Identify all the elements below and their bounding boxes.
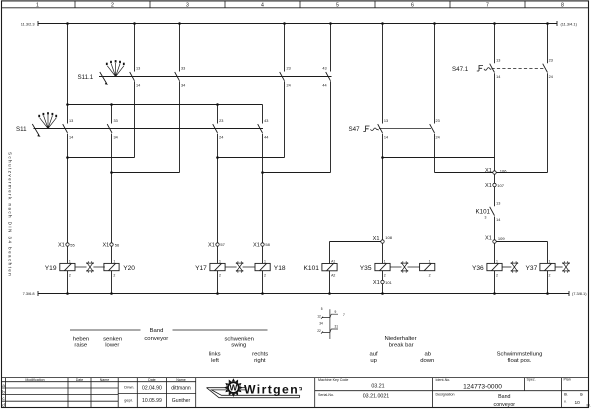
switch S47.1 mechanical link (dashed) <box>492 68 545 70</box>
logo gear emblem with W <box>224 378 243 397</box>
svg-text:23: 23 <box>219 119 223 123</box>
junction top rail x=330 <box>329 22 332 25</box>
junction S11 branch x=112 <box>110 103 113 106</box>
svg-text:1: 1 <box>113 260 115 264</box>
svg-text:Y36: Y36 <box>472 265 484 272</box>
svg-text:23: 23 <box>287 67 291 71</box>
svg-text:X1: X1 <box>373 280 380 286</box>
svg-text:Bl.: Bl. <box>587 403 591 407</box>
svg-text:4: 4 <box>261 2 264 8</box>
svg-text:2: 2 <box>429 273 431 277</box>
interlock Y19/Y20 <box>86 261 94 272</box>
switch S11 lever <box>32 124 39 136</box>
contact K101 13/14 <box>490 207 495 216</box>
junction y173 x=262.6 <box>261 171 264 174</box>
svg-text:23: 23 <box>549 59 553 63</box>
svg-text:gepr.: gepr. <box>124 398 133 403</box>
svg-text:Y19: Y19 <box>45 265 57 272</box>
valve interlock symbols <box>86 261 570 272</box>
svg-text:1: 1 <box>69 260 71 264</box>
svg-text:(7.3/8.1): (7.3/8.1) <box>572 291 587 296</box>
junction S11 branch x=67.5 <box>66 103 69 106</box>
wire Y37 bottom to rail <box>547 271 549 294</box>
switch name labels <box>16 66 491 220</box>
junction y158 x=382.4 <box>381 156 384 159</box>
svg-text:conveyor: conveyor <box>494 402 516 408</box>
svg-text:14: 14 <box>136 84 140 88</box>
junction top rail x=67.5 <box>66 22 69 25</box>
coil Y20 <box>104 263 119 270</box>
coil Y35 <box>375 263 390 270</box>
svg-text:dittmann: dittmann <box>171 385 191 391</box>
svg-text:43: 43 <box>322 67 326 71</box>
svg-text:X1: X1 <box>208 242 215 248</box>
wire coil link Y19 to Y20 through interlock <box>75 266 105 268</box>
SOLENOID COILS <box>60 263 555 270</box>
connector X1:107 <box>493 183 496 186</box>
svg-text:24: 24 <box>219 136 223 140</box>
contact S47.1 13/14 <box>490 64 495 73</box>
svg-text:Serial-No.: Serial-No. <box>318 393 334 397</box>
svg-text:14: 14 <box>384 136 388 140</box>
junction top rail x=494.6 <box>493 22 496 25</box>
svg-text:lower: lower <box>105 343 119 349</box>
svg-text:13: 13 <box>136 67 140 71</box>
svg-text:a: a <box>2 383 5 388</box>
svg-text:24: 24 <box>287 84 291 88</box>
connector X1:106 <box>493 171 496 174</box>
coil K101 <box>322 264 337 271</box>
svg-text:13: 13 <box>496 201 500 205</box>
svg-text:3: 3 <box>485 216 487 220</box>
svg-text:2: 2 <box>111 2 114 8</box>
Wirtgen logo <box>207 378 302 397</box>
rail reference labels <box>21 21 587 296</box>
junction top rail x=434 <box>433 22 436 25</box>
wire S11 top branch (y=104.5) feeding contacts 33,23,43 <box>68 104 263 106</box>
contact pin numbers <box>69 59 553 223</box>
svg-text:break bar: break bar <box>389 342 414 348</box>
svg-text:23: 23 <box>436 119 440 123</box>
junction bottom rail x=547.1 <box>546 292 549 295</box>
svg-text:Plan: Plan <box>564 377 571 381</box>
connector X1:108 <box>381 240 384 243</box>
wire branch X1:109 to Y37 <box>495 242 548 264</box>
svg-text:conveyor: conveyor <box>144 336 168 342</box>
MAIN WIRES <box>38 21 569 296</box>
svg-text:Y17: Y17 <box>195 265 207 272</box>
wire rail drop to S11.1 contact 23 <box>284 24 286 158</box>
svg-text:10.05.99: 10.05.99 <box>142 398 162 404</box>
svg-text:Bl.: Bl. <box>564 393 568 397</box>
svg-text:X1: X1 <box>485 168 492 174</box>
svg-text:124773-0000: 124773-0000 <box>463 383 502 390</box>
wire coil link Y37 to interlock <box>555 266 563 268</box>
svg-text:58: 58 <box>265 242 270 247</box>
junction bottom rail x=217.6 <box>216 292 219 295</box>
X1 CONNECTOR PINS <box>66 171 496 284</box>
wire rail drop to S11.1 contact 13 <box>134 24 136 158</box>
wire coil link Y36 to interlock <box>502 266 512 268</box>
svg-text:swing: swing <box>231 343 246 349</box>
contact S11 43/44 <box>258 124 263 133</box>
coil Y37 <box>540 263 555 270</box>
svg-text:5: 5 <box>336 2 339 8</box>
switch S11 selector fan <box>37 112 57 137</box>
svg-text:1: 1 <box>219 260 221 264</box>
svg-text:34: 34 <box>181 84 185 88</box>
switch S11 mechanical line <box>34 128 264 130</box>
wire K101 coil bottom to rail <box>329 271 331 294</box>
switch S47 mechanical link <box>379 128 431 130</box>
svg-text:7.3/6.8: 7.3/6.8 <box>23 291 35 296</box>
wire S47-13 bottom branch to S47.1-14 (y=158) <box>383 157 495 159</box>
wire column Y18 net: S11 contact 43 bottom through X1:58 and coil Y18 to bottom rail <box>262 134 264 294</box>
svg-text:c: c <box>2 396 5 401</box>
svg-text:13: 13 <box>496 59 500 63</box>
svg-text:2: 2 <box>219 273 221 277</box>
svg-text:S11: S11 <box>16 126 27 133</box>
svg-text:8: 8 <box>561 2 564 8</box>
svg-text:X1: X1 <box>253 242 260 248</box>
svg-text:(11.3/4.1): (11.3/4.1) <box>561 21 578 26</box>
wire S47-23 bottom to X1:106 line (y=173) over to S47.1-24 drop <box>435 172 548 174</box>
junction top rail x=179.5 <box>178 22 181 25</box>
connector X1:55 <box>66 243 69 246</box>
svg-text:107: 107 <box>497 183 504 188</box>
contact S47 13/14 <box>378 124 383 133</box>
SWITCHES <box>32 60 547 216</box>
svg-text:44: 44 <box>322 84 326 88</box>
wire coil link Y17 to Y18 through interlock <box>226 266 255 268</box>
contact S11.1 43/44 <box>326 72 331 81</box>
wire link S11.1-33 bottom to Y20 net (y=173) <box>112 172 180 174</box>
svg-text:Name: Name <box>100 378 110 382</box>
svg-text:Modification: Modification <box>25 378 44 382</box>
group line Band conveyor <box>70 329 268 331</box>
svg-text:108: 108 <box>385 235 392 240</box>
svg-text:Y18: Y18 <box>274 265 286 272</box>
wire link S11.1-43 bottom to Y18 net (y=173) <box>263 172 331 174</box>
svg-text:2: 2 <box>549 273 551 277</box>
svg-text:v.: v. <box>564 400 567 404</box>
interlock Y35/partner <box>401 261 409 272</box>
switch S47 actuator symbol <box>363 126 369 132</box>
connector X1:109 <box>493 240 496 243</box>
svg-text:senken: senken <box>103 336 122 342</box>
svg-text:right: right <box>254 358 266 364</box>
wire rail drop to S11.1 contact 43 <box>330 24 332 173</box>
coil Y18 <box>255 263 270 270</box>
junction bottom rail x=329.7 <box>328 292 331 295</box>
interlock Y17/Y18 <box>236 261 244 272</box>
svg-text:1: 1 <box>264 260 266 264</box>
wire column Y20 net: S11 contact 33 bottom through X1:56 and coil Y20 to bottom rail <box>111 134 113 294</box>
contact S11.1 33/34 <box>175 72 180 81</box>
svg-text:6: 6 <box>411 2 414 8</box>
svg-text:K101: K101 <box>304 265 320 272</box>
logo machine silhouette <box>207 388 302 398</box>
svg-text:31: 31 <box>335 325 339 329</box>
svg-text:up: up <box>370 358 377 364</box>
junction bottom rail x=262.6 <box>261 292 264 295</box>
svg-text:02.04.90: 02.04.90 <box>142 385 162 391</box>
svg-text:auf: auf <box>369 352 378 358</box>
svg-text:Y35: Y35 <box>360 265 372 272</box>
svg-text:24: 24 <box>436 136 440 140</box>
svg-text:X1: X1 <box>373 236 380 242</box>
coil Y36 <box>487 263 502 270</box>
svg-text:13: 13 <box>69 119 73 123</box>
svg-text:Date: Date <box>76 378 84 382</box>
svg-text:2: 2 <box>264 273 266 277</box>
contact S47.1 23/24 <box>543 64 548 73</box>
svg-text:b: b <box>2 390 5 395</box>
wire rail drop to S47.1 contact 23, bottom down to y=173 <box>547 24 549 173</box>
contact S47 23/24 <box>430 124 435 133</box>
svg-text:106: 106 <box>500 169 507 174</box>
svg-text:Y37: Y37 <box>526 265 538 272</box>
contact S11 13/14 <box>63 124 68 133</box>
contact S11 23/24 <box>213 124 218 133</box>
svg-text:Spez.: Spez. <box>527 377 536 381</box>
wire column Y19 net: rail to S11 contact 13, to X1:55, coil Y19, to bottom rail <box>67 24 69 294</box>
junction top rail x=285 <box>283 22 286 25</box>
contact S11.1 23/24 <box>280 72 285 81</box>
svg-text:schwenken: schwenken <box>224 336 253 342</box>
svg-text:rechts: rechts <box>252 352 268 358</box>
svg-text:Gunther: Gunther <box>172 398 191 404</box>
column index strip line <box>2 7 589 9</box>
switch S11.1 mechanical line <box>99 76 332 78</box>
wire rail drop through S47.1 contact 13 down through X1:106, X1:107, K101 contact, X1:109 to coil Y36 <box>494 24 496 294</box>
svg-text:Band: Band <box>150 328 164 334</box>
node M : bottom return rail <box>38 291 569 296</box>
svg-text:Band: Band <box>498 394 510 400</box>
svg-text:34: 34 <box>114 136 118 140</box>
svg-text:left: left <box>211 358 219 364</box>
svg-text:33: 33 <box>181 67 185 71</box>
svg-text:S47.1: S47.1 <box>452 66 469 73</box>
svg-text:A1: A1 <box>331 260 335 264</box>
svg-text:10: 10 <box>575 400 581 406</box>
coil pin numbers <box>69 260 551 278</box>
junction bottom rail x=112 <box>110 292 113 295</box>
svg-text:2: 2 <box>69 273 71 277</box>
svg-text:Drwn.: Drwn. <box>124 385 134 390</box>
junction y173 x=112 <box>110 171 113 174</box>
svg-text:Name: Name <box>176 378 186 382</box>
cam position legend <box>317 307 345 339</box>
interlock Y37 <box>562 261 570 272</box>
svg-text:5: 5 <box>321 307 323 311</box>
svg-text:Niederhalter: Niederhalter <box>384 336 416 342</box>
wire branch X1:108 to K101 coil <box>330 242 383 264</box>
svg-text:down: down <box>420 358 434 364</box>
wire link S11.1-23 bottom to Y17 net (y=158) <box>218 157 285 159</box>
svg-text:24: 24 <box>549 75 553 79</box>
svg-text:Schutzvermerk nach DIN 34 beac: Schutzvermerk nach DIN 34 beachten <box>7 152 12 277</box>
connector X1:101 <box>381 280 384 283</box>
connector X1:57 <box>216 243 219 246</box>
svg-text:Date: Date <box>148 378 156 382</box>
svg-text:2: 2 <box>384 273 386 277</box>
svg-text:Ident-No.: Ident-No. <box>436 378 451 382</box>
svg-text:03.21: 03.21 <box>371 384 384 390</box>
wire stub branch to S11 contact 43 <box>262 105 264 124</box>
svg-text:9: 9 <box>335 310 337 314</box>
coil name labels <box>45 265 538 272</box>
svg-text:14: 14 <box>496 218 500 222</box>
connector X1:58 <box>261 243 264 246</box>
svg-text:ab: ab <box>425 352 432 358</box>
wire coil link Y35 to partner coil through interlock <box>390 266 420 268</box>
wire rail drop through S47 contact 13 down to X1:108 and Y35 <box>382 24 384 294</box>
junction top rail x=382.4 <box>381 22 384 25</box>
svg-text:2: 2 <box>113 273 115 277</box>
wire stub branch to S11 contact 23 <box>217 105 219 124</box>
svg-text:9: 9 <box>580 392 583 398</box>
wire stub branch to S11 contact 33 <box>111 105 113 124</box>
svg-text:7: 7 <box>486 2 489 8</box>
svg-text:34: 34 <box>319 322 323 326</box>
connector X1:56 <box>110 243 113 246</box>
TITLE BLOCK <box>2 378 589 408</box>
wire rail drop to S47 contact 23 <box>434 24 436 173</box>
svg-text:1: 1 <box>36 2 39 8</box>
svg-text:Wirtgen: Wirtgen <box>244 382 299 396</box>
switch S11.1 lever <box>100 72 107 84</box>
svg-text:22: 22 <box>317 329 321 333</box>
svg-text:03.21.0021: 03.21.0021 <box>363 393 390 399</box>
column ticks <box>75 1 525 8</box>
junction y158 x=67.5 <box>66 156 69 159</box>
node L+ : top supply rail <box>38 21 557 26</box>
svg-text:S11.1: S11.1 <box>78 74 94 81</box>
svg-text:56: 56 <box>115 242 120 247</box>
svg-text:K101: K101 <box>476 209 491 216</box>
interlock Y36 <box>511 261 519 272</box>
column numbers 1-8 <box>36 2 564 8</box>
svg-text:1: 1 <box>549 260 551 264</box>
svg-text:Schwimmstellung: Schwimmstellung <box>497 352 543 358</box>
svg-text:heben: heben <box>73 336 89 342</box>
wire link S11.1-13 bottom to Y19 net (y=158) <box>68 157 135 159</box>
svg-text:43: 43 <box>264 119 268 123</box>
svg-text:1: 1 <box>496 260 498 264</box>
svg-text:raise: raise <box>74 343 87 349</box>
junction y158 x=217.6 <box>216 156 219 159</box>
svg-text:Y20: Y20 <box>123 265 135 272</box>
junction S11 branch x=217.6 <box>216 103 219 106</box>
svg-text:W: W <box>230 384 238 393</box>
coil Y19 <box>60 263 75 270</box>
svg-text:d: d <box>2 403 5 408</box>
svg-text:Designation: Designation <box>436 392 455 396</box>
svg-text:7: 7 <box>343 313 345 317</box>
svg-text:X1: X1 <box>102 243 109 249</box>
switch S47.1 actuator symbol <box>477 66 483 72</box>
svg-text:1: 1 <box>384 260 386 264</box>
title block grid lines <box>2 377 589 379</box>
junction bottom rail x=382.4 <box>381 292 384 295</box>
contact S11 33/34 <box>107 124 112 133</box>
FUNCTION LABELS <box>70 328 542 364</box>
svg-text:14: 14 <box>69 136 73 140</box>
svg-text:1: 1 <box>429 260 431 264</box>
svg-text:X1: X1 <box>58 243 65 249</box>
switch S11.1 selector fan <box>105 60 125 85</box>
svg-text:float pos.: float pos. <box>508 358 532 364</box>
svg-text:44: 44 <box>264 136 268 140</box>
junction bottom rail x=67.5 <box>66 292 69 295</box>
coil Y35 partner solenoid <box>420 263 435 270</box>
svg-text:X1: X1 <box>485 236 492 242</box>
svg-text:3: 3 <box>186 2 189 8</box>
wire column Y17 net: S11 contact 23 bottom through X1:57 and coil Y17 to bottom rail <box>217 134 219 294</box>
junction bottom rail x=494.6 <box>493 292 496 295</box>
svg-text:101: 101 <box>385 280 392 285</box>
junction top rail x=547.1 <box>546 22 549 25</box>
junction top rail x=134.5 <box>133 22 136 25</box>
svg-text:links: links <box>209 352 221 358</box>
wire rail drop to S11.1 contact 33 <box>179 24 181 173</box>
svg-text:Machine Key Code: Machine Key Code <box>318 378 348 382</box>
svg-text:2: 2 <box>496 273 498 277</box>
svg-text:X1: X1 <box>485 183 492 189</box>
svg-text:14: 14 <box>496 75 500 79</box>
contact S11.1 13/14 <box>130 72 135 81</box>
svg-text:109: 109 <box>498 236 505 241</box>
svg-text:57: 57 <box>220 242 225 247</box>
svg-text:55: 55 <box>70 242 75 247</box>
svg-text:13: 13 <box>384 119 388 123</box>
svg-text:33: 33 <box>114 119 118 123</box>
svg-text:11.3/2.3: 11.3/2.3 <box>21 21 35 26</box>
coil Y17 <box>210 263 225 270</box>
svg-text:A2: A2 <box>331 273 335 277</box>
svg-text:12: 12 <box>317 314 321 318</box>
svg-text:S47: S47 <box>349 126 361 133</box>
